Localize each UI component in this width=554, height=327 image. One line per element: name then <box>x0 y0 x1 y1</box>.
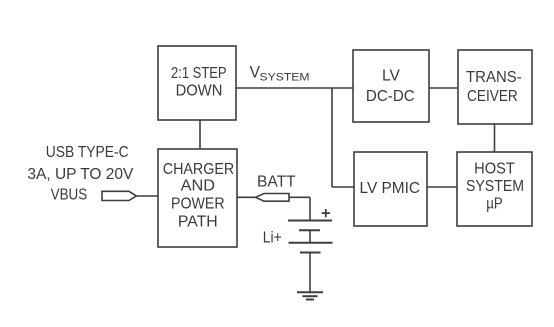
svg-text:V: V <box>250 64 260 82</box>
svg-text:POWER: POWER <box>171 196 225 213</box>
svg-text:Li+: Li+ <box>263 230 282 247</box>
svg-text:TRANS-: TRANS- <box>466 69 522 86</box>
svg-text:BATT: BATT <box>257 173 296 190</box>
svg-text:AND: AND <box>181 178 215 195</box>
svg-text:CEIVER: CEIVER <box>467 88 518 105</box>
svg-text:LV: LV <box>382 68 400 85</box>
svg-text:VBUS: VBUS <box>51 187 88 204</box>
svg-text:2:1 STEP: 2:1 STEP <box>171 65 227 82</box>
svg-text:CHARGER: CHARGER <box>163 161 235 178</box>
svg-text:SYSTEM: SYSTEM <box>260 71 310 83</box>
svg-text:LV PMIC: LV PMIC <box>360 180 421 197</box>
svg-text:µP: µP <box>486 196 503 213</box>
svg-text:HOST: HOST <box>474 160 515 177</box>
svg-text:3A, UP TO 20V: 3A, UP TO 20V <box>27 166 133 183</box>
svg-text:SYSTEM: SYSTEM <box>466 178 524 195</box>
svg-text:USB TYPE-C: USB TYPE-C <box>46 144 129 161</box>
svg-text:DOWN: DOWN <box>176 82 223 99</box>
svg-text:PATH: PATH <box>178 214 218 231</box>
svg-text:DC-DC: DC-DC <box>366 88 415 105</box>
